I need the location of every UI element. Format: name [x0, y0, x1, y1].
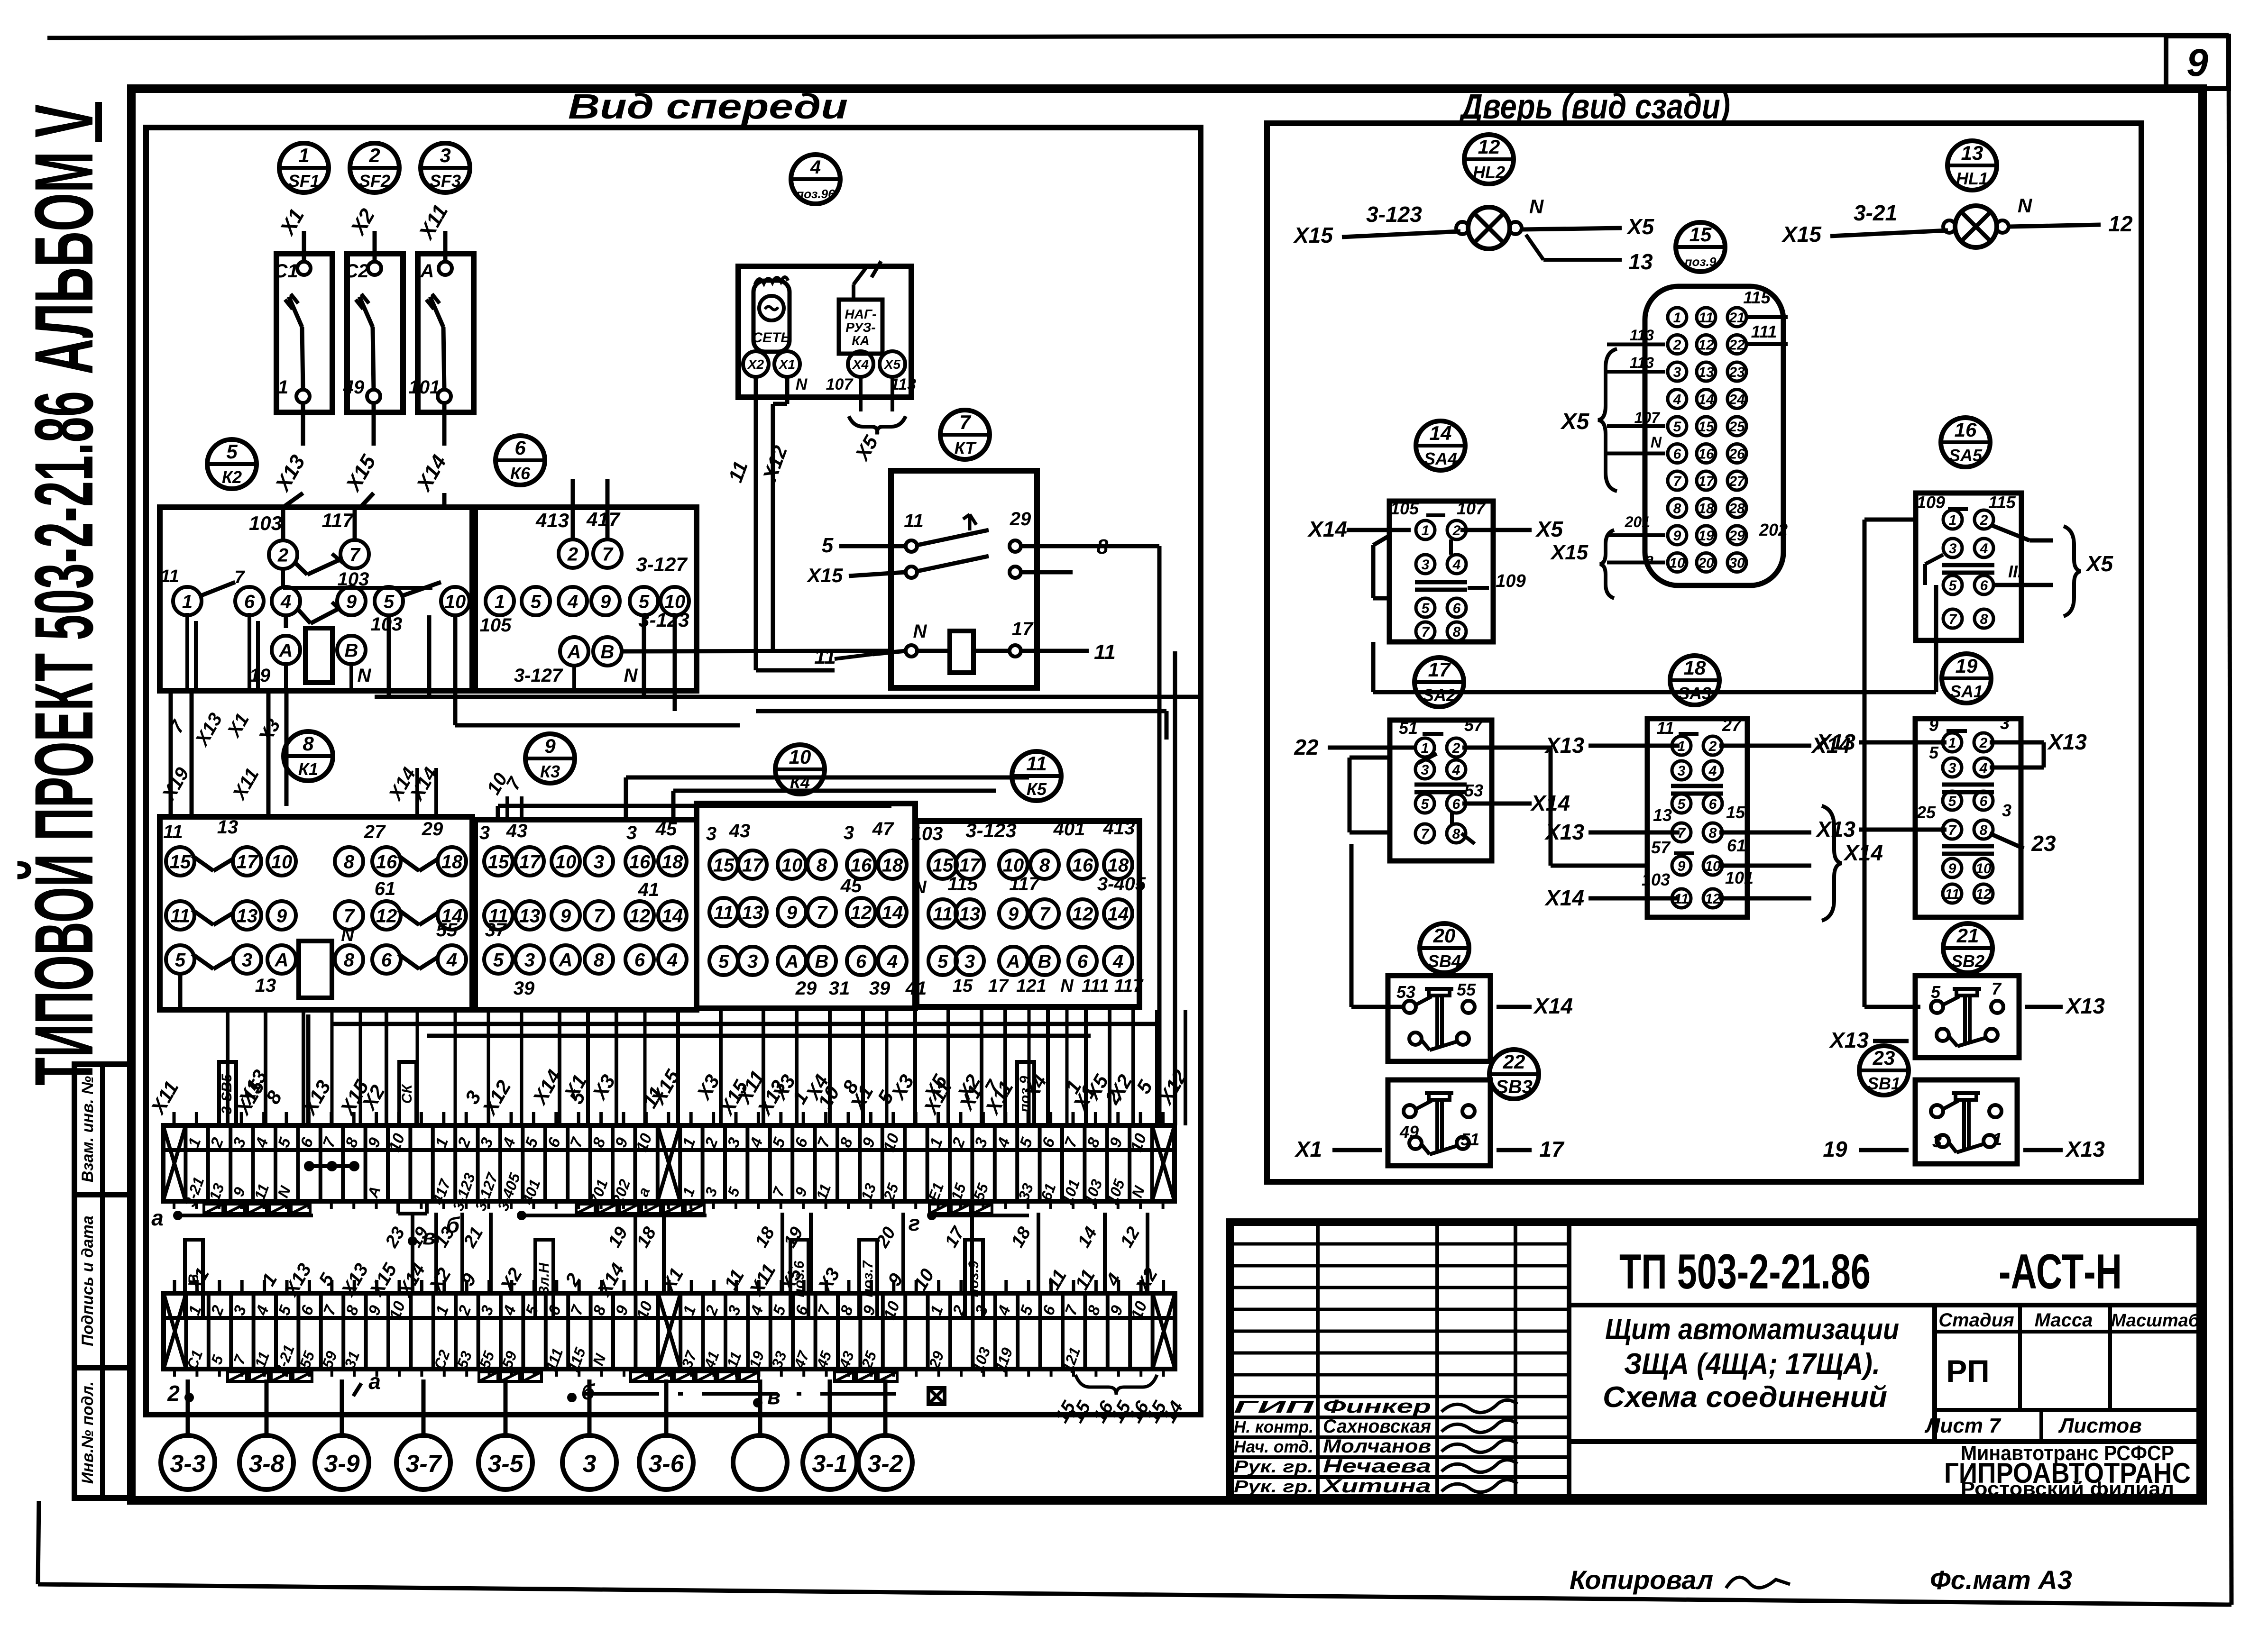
svg-text:8: 8 — [344, 851, 355, 872]
svg-text:21: 21 — [1956, 924, 1979, 947]
svg-text:30: 30 — [1729, 555, 1745, 571]
connector block poz.9 — [1550, 286, 1788, 598]
svg-text:К5: К5 — [1027, 779, 1047, 799]
svg-text:2: 2 — [167, 1381, 180, 1406]
svg-text:В: В — [186, 1274, 202, 1284]
svg-text:15: 15 — [1726, 803, 1745, 822]
svg-text:2: 2 — [1452, 740, 1460, 756]
svg-text:101: 101 — [1725, 868, 1754, 887]
svg-text:3-123: 3-123 — [965, 819, 1016, 841]
svg-text:III: III — [2008, 562, 2023, 581]
svg-text:14: 14 — [1108, 904, 1129, 924]
svg-text:3: 3 — [583, 1450, 597, 1478]
svg-text:18: 18 — [662, 851, 683, 872]
svg-text:3-127: 3-127 — [636, 553, 688, 575]
svg-text:Х5: Х5 — [1626, 214, 1655, 239]
device poz.96 network/load box — [738, 261, 916, 465]
lamp HL2 — [1293, 195, 1654, 274]
svg-text:4: 4 — [1979, 760, 1988, 776]
svg-text:16: 16 — [1698, 446, 1714, 462]
svg-text:3: 3 — [440, 144, 450, 166]
svg-text:17: 17 — [1698, 474, 1715, 489]
svg-text:115: 115 — [1743, 288, 1771, 307]
selector switch SA1 — [1815, 713, 2087, 917]
svg-text:51: 51 — [1460, 1130, 1479, 1149]
svg-text:29: 29 — [795, 978, 817, 999]
svg-text:7: 7 — [234, 567, 245, 587]
svg-text:5: 5 — [1422, 601, 1430, 616]
terminal strip row 1 — [163, 1112, 1175, 1213]
right side vertical bus wires — [180, 546, 1175, 1125]
svg-text:2: 2 — [277, 545, 288, 566]
svg-text:14: 14 — [1430, 422, 1452, 444]
svg-text:17: 17 — [1539, 1137, 1565, 1161]
svg-text:9: 9 — [1929, 715, 1938, 735]
labels between terminal strips — [183, 1213, 1162, 1318]
svg-text:17: 17 — [519, 851, 541, 872]
left frame column box Inv.No podl — [74, 1368, 131, 1498]
svg-text:КТ: КТ — [955, 438, 977, 457]
svg-text:Копировал: Копировал — [1570, 1565, 1713, 1595]
svg-text:Зл.Н: Зл.Н — [536, 1262, 552, 1296]
tag circle 1/SF1 — [279, 143, 329, 192]
svg-text:N: N — [1060, 976, 1074, 996]
svg-text:13: 13 — [519, 905, 541, 926]
svg-text:401: 401 — [1053, 819, 1085, 840]
left margin text TIPOVOY PROEKT 503-2-21.86 — [18, 391, 110, 1086]
svg-text:N: N — [796, 375, 808, 393]
title block list row — [1924, 1410, 2200, 1442]
svg-text:К1: К1 — [298, 759, 318, 779]
svg-text:В: В — [1038, 951, 1052, 972]
svg-text:Х15: Х15 — [1550, 541, 1589, 564]
wire SF outputs down — [283, 493, 444, 507]
svg-text:3: 3 — [1673, 365, 1681, 380]
svg-text:Х14: Х14 — [1533, 994, 1573, 1018]
svg-text:9: 9 — [346, 591, 357, 612]
svg-text:1: 1 — [1422, 523, 1430, 539]
svg-text:в: в — [767, 1384, 780, 1409]
svg-text:12: 12 — [629, 905, 651, 926]
svg-text:3: 3 — [706, 823, 716, 844]
title block subject text — [1569, 1313, 2200, 1442]
svg-text:18: 18 — [441, 851, 463, 872]
svg-text:11: 11 — [1656, 718, 1674, 738]
svg-text:27: 27 — [1722, 715, 1742, 735]
tag circle 20/SB4 — [1420, 923, 1469, 973]
svg-text:а: а — [1645, 550, 1654, 567]
svg-text:Х15: Х15 — [1781, 222, 1822, 247]
wire poz.96 to KT — [756, 377, 835, 670]
svg-text:29: 29 — [1728, 528, 1745, 544]
svg-text:ТИПОВОЙ ПРОЕКТ 503-2-21.86: ТИПОВОЙ ПРОЕКТ 503-2-21.86 — [18, 391, 110, 1086]
svg-text:3: 3 — [1932, 1132, 1942, 1151]
svg-text:Х1: Х1 — [778, 357, 795, 372]
svg-text:3-3: 3-3 — [170, 1450, 205, 1478]
svg-text:C2: C2 — [344, 261, 368, 282]
svg-text:C1: C1 — [274, 261, 298, 282]
header Vid speredi — [568, 87, 848, 126]
svg-text:SA2: SA2 — [1423, 685, 1456, 705]
svg-text:22: 22 — [1294, 735, 1319, 759]
svg-text:10: 10 — [1705, 859, 1721, 874]
svg-text:В: В — [345, 640, 358, 661]
svg-text:поз.96: поз.96 — [796, 187, 835, 201]
svg-text:7: 7 — [1422, 624, 1430, 640]
svg-text:101: 101 — [409, 377, 441, 398]
pushbutton SB1 — [1823, 1080, 2105, 1164]
svg-text:4: 4 — [810, 157, 821, 178]
tag circle 16/SA5 — [1941, 418, 1990, 467]
svg-text:103: 103 — [1642, 870, 1670, 889]
svg-text:19: 19 — [1956, 655, 1978, 677]
svg-text:9: 9 — [1673, 528, 1681, 544]
svg-text:3-1: 3-1 — [812, 1450, 847, 1478]
wire SA1 to SB2 — [1864, 616, 1920, 1007]
svg-text:55: 55 — [1457, 980, 1476, 999]
tag circle 2/SF2 — [350, 143, 399, 192]
svg-text:15: 15 — [953, 976, 973, 996]
svg-text:8: 8 — [1453, 624, 1461, 640]
svg-text:1: 1 — [1673, 310, 1681, 326]
svg-text:417: 417 — [586, 508, 621, 530]
svg-text:8: 8 — [1709, 825, 1717, 841]
svg-text:Х1: Х1 — [1294, 1137, 1322, 1161]
svg-text:39: 39 — [869, 978, 891, 999]
svg-text:4: 4 — [1452, 557, 1461, 573]
note format A3 — [1930, 1565, 2072, 1595]
svg-text:Х13: Х13 — [1828, 1028, 1869, 1052]
svg-text:3: 3 — [1678, 763, 1686, 779]
svg-text:11: 11 — [170, 905, 190, 926]
svg-text:SF2: SF2 — [359, 171, 390, 191]
svg-text:9: 9 — [276, 905, 287, 926]
svg-text:К3: К3 — [540, 762, 560, 781]
svg-text:1: 1 — [495, 591, 505, 612]
svg-text:SA4: SA4 — [1424, 449, 1457, 468]
svg-text:7: 7 — [1948, 822, 1957, 838]
svg-text:Подпись и дата: Подпись и дата — [79, 1215, 97, 1346]
svg-text:12: 12 — [2108, 211, 2133, 236]
svg-text:25: 25 — [1728, 419, 1745, 435]
svg-text:6: 6 — [244, 591, 255, 612]
svg-text:Х15: Х15 — [1293, 223, 1333, 247]
svg-text:8: 8 — [1452, 826, 1460, 842]
svg-text:10: 10 — [1003, 855, 1024, 876]
svg-text:7: 7 — [1949, 612, 1957, 627]
svg-text:3-405: 3-405 — [1097, 874, 1146, 895]
svg-text:7: 7 — [1039, 904, 1051, 924]
sheet outer border right line — [2229, 35, 2231, 1605]
svg-text:16: 16 — [1072, 855, 1093, 876]
svg-text:13: 13 — [1628, 249, 1653, 274]
svg-text:Молчанов: Молчанов — [1323, 1436, 1431, 1457]
svg-text:4: 4 — [280, 591, 291, 612]
tag circle 7/KT — [940, 410, 990, 459]
svg-text:9: 9 — [560, 905, 571, 926]
svg-text:15: 15 — [1698, 419, 1715, 435]
left frame column box Vzam.inv.No — [74, 1064, 131, 1195]
svg-text:7: 7 — [817, 902, 828, 923]
svg-text:6: 6 — [856, 951, 867, 972]
svg-text:4: 4 — [1708, 763, 1717, 779]
svg-text:3-SB5: 3-SB5 — [219, 1073, 235, 1114]
svg-text:13: 13 — [237, 905, 258, 926]
pushbutton SB4 — [1388, 976, 1573, 1061]
svg-text:Х15: Х15 — [807, 564, 843, 586]
svg-text:19: 19 — [1823, 1137, 1847, 1161]
svg-text:39: 39 — [514, 978, 535, 999]
hatch marks below strip 1 — [151, 1201, 1029, 1249]
svg-text:SB4: SB4 — [1428, 951, 1461, 971]
tag circle 3/SF3 — [421, 143, 470, 192]
svg-text:43: 43 — [506, 821, 528, 841]
svg-text:1: 1 — [298, 144, 309, 166]
page number box 9 — [2166, 36, 2229, 89]
svg-text:8: 8 — [1673, 501, 1681, 516]
svg-text:15: 15 — [1690, 223, 1712, 246]
svg-text:6: 6 — [514, 437, 526, 459]
svg-text:17: 17 — [742, 855, 764, 876]
svg-text:А: А — [1006, 951, 1020, 972]
svg-text:113: 113 — [891, 375, 916, 393]
svg-text:9: 9 — [2186, 41, 2208, 84]
svg-text:11: 11 — [814, 645, 836, 668]
svg-text:17: 17 — [1012, 619, 1034, 639]
tag circle 12/HL2 — [1464, 135, 1514, 184]
labels above terminal strip 1 — [146, 1062, 1125, 1125]
svg-text:19: 19 — [249, 665, 271, 686]
svg-text:6: 6 — [1077, 951, 1088, 972]
svg-text:8: 8 — [344, 950, 355, 970]
svg-text:10: 10 — [1975, 861, 1992, 877]
svg-text:4: 4 — [1112, 951, 1123, 972]
svg-text:413: 413 — [535, 509, 569, 531]
svg-text:22: 22 — [1503, 1051, 1525, 1073]
pushbutton SB3 — [1294, 1080, 1565, 1166]
tag circle 8/K1 — [284, 731, 333, 781]
svg-text:13: 13 — [959, 904, 981, 924]
svg-text:4: 4 — [667, 950, 678, 970]
svg-text:7: 7 — [602, 544, 614, 565]
svg-text:61: 61 — [1727, 836, 1746, 855]
svg-text:17: 17 — [959, 855, 981, 876]
svg-text:5: 5 — [175, 950, 186, 970]
svg-text:СЕТЬ: СЕТЬ — [752, 330, 790, 346]
terminal strip row 2 — [164, 1280, 1175, 1377]
svg-text:Х13: Х13 — [1815, 730, 1855, 754]
svg-text:8: 8 — [1980, 612, 1988, 627]
svg-text:N: N — [341, 925, 355, 945]
tag circle 5/K2 — [207, 439, 257, 489]
svg-text:105: 105 — [1390, 499, 1419, 518]
wire SA2 to SA3 — [1462, 748, 1647, 866]
bottom cable destination circles — [161, 1379, 912, 1489]
svg-text:5: 5 — [1421, 796, 1430, 812]
svg-text:4: 4 — [1980, 541, 1988, 557]
tag circle 9/K3 — [525, 734, 575, 783]
svg-text:19: 19 — [1698, 528, 1714, 544]
breaker SF1 — [270, 205, 332, 496]
svg-text:Х4: Х4 — [852, 357, 869, 372]
svg-text:3-127: 3-127 — [514, 665, 563, 686]
svg-text:57: 57 — [1651, 838, 1671, 857]
svg-text:5: 5 — [1949, 578, 1957, 594]
svg-text:13: 13 — [1698, 365, 1714, 380]
svg-text:Нач. отд.: Нач. отд. — [1234, 1437, 1313, 1456]
svg-text:Масса: Масса — [2035, 1310, 2093, 1331]
svg-text:5: 5 — [937, 951, 948, 972]
svg-text:6: 6 — [1980, 794, 1988, 809]
svg-text:поз.9: поз.9 — [1685, 255, 1717, 269]
svg-text:11: 11 — [1094, 640, 1116, 664]
svg-text:N: N — [913, 621, 927, 642]
svg-text:5: 5 — [493, 950, 504, 970]
svg-text:3: 3 — [524, 950, 535, 970]
svg-text:9: 9 — [1008, 904, 1019, 924]
svg-text:2: 2 — [567, 544, 578, 565]
svg-text:103: 103 — [371, 614, 403, 635]
svg-text:Рук. гр.: Рук. гр. — [1234, 1477, 1313, 1496]
svg-text:7: 7 — [1673, 474, 1682, 489]
svg-text:5: 5 — [1948, 794, 1957, 809]
relay contact block K4 — [697, 804, 927, 1008]
svg-text:7: 7 — [959, 411, 971, 433]
svg-text:9: 9 — [600, 591, 611, 612]
svg-text:2: 2 — [368, 144, 380, 166]
svg-text:16: 16 — [1955, 419, 1977, 441]
svg-text:121: 121 — [1016, 976, 1046, 996]
svg-text:SF1: SF1 — [288, 171, 320, 191]
svg-text:3: 3 — [594, 851, 604, 872]
bus wires below K blocks — [332, 1024, 1157, 1036]
svg-text:а: а — [368, 1369, 381, 1394]
svg-text:413: 413 — [1103, 818, 1135, 839]
svg-text:113: 113 — [1630, 354, 1654, 371]
svg-text:55: 55 — [436, 920, 458, 941]
svg-text:4: 4 — [567, 591, 578, 612]
header Dver (vid szadi) — [1459, 87, 1730, 126]
svg-text:10: 10 — [271, 851, 293, 872]
svg-text:ЗЩА (4ЩА; 17ЩА).: ЗЩА (4ЩА; 17ЩА). — [1624, 1348, 1880, 1380]
svg-text:31: 31 — [829, 978, 850, 999]
svg-text:11: 11 — [904, 511, 924, 531]
wires K2 block down to K1 block — [158, 691, 526, 820]
svg-text:45: 45 — [655, 819, 677, 840]
svg-text:11: 11 — [1026, 752, 1047, 775]
tag circle 6/K6 — [496, 436, 545, 485]
svg-text:Дверь (вид сзади): Дверь (вид сзади) — [1459, 87, 1730, 126]
svg-text:2: 2 — [1980, 512, 1988, 528]
svg-text:24: 24 — [1728, 392, 1745, 407]
svg-text:-АСТ-Н: -АСТ-Н — [1999, 1244, 2122, 1299]
svg-text:57: 57 — [1464, 715, 1484, 735]
svg-text:9: 9 — [544, 735, 556, 757]
bus wires above K3 K4 K5 — [498, 777, 1029, 820]
svg-text:Х13: Х13 — [2065, 994, 2105, 1018]
title block doc number TP 503-2-21.86 -ACT-N — [1569, 1222, 2200, 1498]
svg-text:SF3: SF3 — [430, 171, 461, 191]
svg-text:12: 12 — [1705, 891, 1721, 907]
wires above K6 — [573, 443, 791, 507]
svg-text:3: 3 — [479, 822, 490, 843]
svg-text:3-6: 3-6 — [648, 1450, 684, 1478]
svg-text:51: 51 — [1399, 718, 1418, 738]
svg-text:3: 3 — [1949, 541, 1957, 557]
svg-text:Рук. гр.: Рук. гр. — [1234, 1457, 1313, 1476]
svg-text:3-9: 3-9 — [324, 1450, 359, 1478]
wire SA2 to SB4 — [1351, 844, 1402, 1007]
relay contact block K5 — [911, 818, 1146, 1007]
svg-text:Вид спереди: Вид спереди — [568, 87, 848, 126]
svg-text:12: 12 — [1072, 904, 1093, 924]
svg-text:20: 20 — [1698, 555, 1714, 571]
svg-text:18: 18 — [1684, 657, 1706, 679]
svg-text:53: 53 — [1396, 982, 1415, 1002]
svg-text:Стадия: Стадия — [1938, 1310, 2014, 1331]
svg-text:8: 8 — [817, 855, 827, 876]
relay contact block K2 — [160, 507, 512, 691]
svg-text:23: 23 — [1728, 365, 1745, 380]
svg-text:Хитина: Хитина — [1322, 1476, 1431, 1497]
svg-text:202: 202 — [1759, 520, 1788, 539]
svg-text:5: 5 — [1931, 982, 1941, 1002]
svg-text:201: 201 — [1625, 513, 1650, 530]
lamp HL1 — [1781, 194, 2133, 247]
svg-text:13: 13 — [1653, 805, 1672, 825]
svg-text:11: 11 — [714, 902, 734, 923]
svg-text:Х2: Х2 — [747, 357, 764, 372]
svg-text:10: 10 — [1669, 555, 1685, 571]
svg-text:12: 12 — [1698, 337, 1714, 353]
svg-text:11: 11 — [160, 566, 179, 586]
svg-text:Х13: Х13 — [1544, 820, 1584, 844]
tag circle 17/SA2 — [1414, 658, 1464, 707]
svg-text:5: 5 — [1673, 419, 1682, 435]
svg-text:13: 13 — [217, 817, 239, 838]
svg-text:103: 103 — [249, 512, 282, 534]
svg-text:15: 15 — [932, 855, 954, 876]
svg-text:3: 3 — [1948, 760, 1956, 776]
relay contact block K6 — [475, 507, 891, 711]
svg-text:12: 12 — [376, 905, 397, 926]
tag circle 15/poz.9 — [1676, 222, 1725, 272]
svg-text:1: 1 — [1993, 1129, 2002, 1149]
svg-text:6: 6 — [1709, 796, 1717, 812]
svg-text:Взам. инв. №: Взам. инв. № — [79, 1076, 97, 1183]
svg-text:4: 4 — [1452, 762, 1460, 778]
tag circle 22/SB3 — [1489, 1050, 1539, 1099]
svg-text:9: 9 — [787, 902, 798, 923]
svg-text:16: 16 — [851, 855, 872, 876]
svg-text:27: 27 — [364, 822, 386, 842]
svg-text:6: 6 — [634, 950, 645, 970]
svg-text:3-7: 3-7 — [405, 1450, 442, 1478]
svg-text:7: 7 — [1992, 979, 2002, 998]
svg-text:7: 7 — [594, 905, 605, 926]
svg-text:61: 61 — [375, 878, 396, 899]
svg-text:3-123: 3-123 — [1366, 202, 1422, 227]
title block signature table — [1230, 1222, 1569, 1498]
svg-text:17: 17 — [988, 976, 1009, 996]
svg-text:3: 3 — [1421, 762, 1429, 778]
selector switch SA2 — [1294, 715, 1570, 861]
svg-text:17: 17 — [237, 851, 258, 872]
svg-text:2: 2 — [1708, 739, 1717, 754]
svg-text:18: 18 — [1698, 501, 1714, 516]
svg-text:115: 115 — [1988, 493, 2016, 512]
svg-text:Х5: Х5 — [883, 357, 901, 372]
